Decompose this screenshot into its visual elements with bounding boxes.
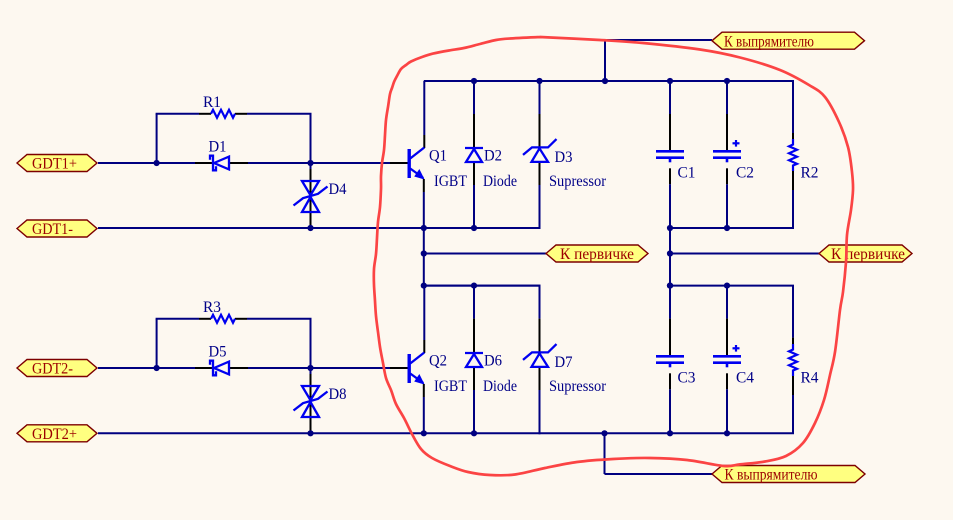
- svg-text:D6: D6: [484, 353, 502, 370]
- node junction C2 top: [724, 78, 730, 84]
- svg-text:К выпрямителю: К выпрямителю: [725, 467, 818, 484]
- node junction C4 bottom: [724, 430, 730, 436]
- transistor Q2: [409, 353, 424, 384]
- wire D8 to lower rail: [310, 374, 312, 433]
- wire D7 branch: [539, 286, 541, 319]
- resistor R3: [211, 315, 235, 323]
- node junction D8 top: [307, 365, 313, 371]
- svg-text:Q2: Q2: [429, 353, 447, 370]
- node junction Q1 emitter: [421, 225, 427, 231]
- red highlight loop (freehand annotation): [374, 37, 853, 475]
- wire R2 branch: [792, 81, 794, 133]
- suppressor D7: [523, 344, 557, 367]
- svg-text:К первичке: К первичке: [560, 246, 634, 263]
- port GDT1+: [17, 155, 97, 172]
- wire D4 to lower rail: [310, 169, 312, 228]
- node junction base row: [154, 365, 160, 371]
- wire cap midpoint rail vertical: [669, 228, 671, 286]
- wire Q1 emitter: [423, 179, 425, 192]
- wire Q2 collector: [423, 286, 425, 340]
- svg-text:R3: R3: [203, 299, 221, 316]
- node junction D6 top: [471, 283, 477, 289]
- node junction bottom riser: [601, 430, 607, 436]
- diode D2: [465, 148, 483, 162]
- suppressor D3: [523, 139, 557, 162]
- wire to left primary port: [424, 253, 546, 255]
- svg-text:D8: D8: [329, 386, 347, 403]
- svg-text:GDT2+: GDT2+: [32, 426, 77, 443]
- wire C1 branch: [669, 81, 671, 114]
- wire D3 branch: [539, 81, 541, 114]
- wire R1 loop left vertical: [156, 114, 158, 163]
- wire R3 loop left vertical: [156, 319, 158, 368]
- svg-text:C1: C1: [678, 164, 696, 181]
- node junction D4 bottom: [307, 225, 313, 231]
- svg-text:D7: D7: [555, 354, 573, 371]
- node junction C2 bottom: [724, 225, 730, 231]
- node junction Q2 collector bus: [421, 283, 427, 289]
- node junction D3 top: [536, 78, 542, 84]
- port GDT2-: [17, 360, 97, 377]
- wire R4 branch: [792, 286, 794, 338]
- svg-text:D3: D3: [555, 149, 573, 166]
- wire bottom rectifier riser: [604, 433, 606, 474]
- node junction base row: [154, 160, 160, 166]
- node junction D2 bottom: [471, 225, 477, 231]
- wire GDT2+ rail / bottom bus: [98, 432, 794, 434]
- node junction D2 top: [471, 78, 477, 84]
- transistor Q1: [409, 148, 424, 179]
- svg-text:R1: R1: [203, 94, 221, 111]
- node junction C3 top: [667, 283, 673, 289]
- node junction D6 bottom: [471, 430, 477, 436]
- resistor R1: [211, 110, 235, 118]
- node junction C1 top: [667, 78, 673, 84]
- wire collector bus: [424, 80, 794, 82]
- node junction C3 bottom: [667, 430, 673, 436]
- node junction rectifier riser top: [602, 78, 608, 84]
- wire top rectifier riser: [604, 40, 606, 81]
- svg-text:Q1: Q1: [429, 148, 447, 165]
- node junction Q2 emitter: [421, 430, 427, 436]
- resistor R4: [789, 344, 797, 376]
- wire R3 loop top: [156, 318, 199, 320]
- svg-text:Supressor: Supressor: [549, 378, 607, 395]
- port K pervichke (right): [819, 245, 912, 262]
- wire Q2 emitter: [423, 384, 425, 397]
- port GDT1-: [17, 220, 97, 237]
- capacitor C4 (polarized): [713, 345, 741, 367]
- wire R1 loop right vertical: [310, 114, 312, 171]
- diode D6: [465, 353, 483, 367]
- node junction switch node / primary: [421, 250, 427, 256]
- wire collector bus: [424, 285, 541, 287]
- wire Q1 collector: [423, 81, 425, 135]
- svg-text:GDT1-: GDT1-: [32, 221, 73, 238]
- port K vypryamitelyu (bottom): [712, 466, 865, 483]
- svg-text:IGBT: IGBT: [434, 378, 467, 395]
- wire base row: [98, 162, 195, 164]
- port K pervichke (left): [546, 245, 648, 262]
- svg-text:GDT1+: GDT1+: [32, 156, 77, 173]
- diode D5: [210, 361, 229, 376]
- svg-text:D5: D5: [209, 343, 227, 360]
- wire D6 branch: [473, 286, 475, 319]
- port GDT2+: [17, 425, 97, 442]
- wire C4 branch: [726, 286, 728, 319]
- suppressor D8: [294, 386, 328, 417]
- svg-text:GDT2-: GDT2-: [32, 361, 73, 378]
- svg-text:Diode: Diode: [483, 378, 517, 395]
- resistor R2: [789, 139, 797, 171]
- capacitor C2 (polarized): [713, 140, 741, 162]
- wire to top rectifier port: [604, 39, 712, 41]
- suppressor D4: [294, 181, 328, 212]
- wire base row: [98, 367, 195, 369]
- svg-text:К первичке: К первичке: [831, 246, 905, 263]
- capacitor C1: [656, 151, 684, 162]
- wire Q2 collector bus: [424, 285, 541, 287]
- wire to right primary port: [670, 253, 819, 255]
- svg-text:D1: D1: [209, 138, 227, 155]
- wire R1 loop top: [156, 113, 199, 115]
- svg-text:C2: C2: [736, 164, 754, 181]
- port K vypryamitelyu (top): [712, 32, 865, 49]
- node junction D8 bottom: [307, 430, 313, 436]
- diode D1: [210, 156, 229, 171]
- wire to bottom rectifier port: [605, 473, 713, 475]
- svg-text:D4: D4: [329, 181, 347, 198]
- svg-text:D2: D2: [484, 148, 502, 165]
- wire D2 branch: [473, 81, 475, 114]
- wire C3 branch: [669, 286, 671, 319]
- wire C2 branch: [726, 81, 728, 114]
- svg-text:Supressor: Supressor: [549, 173, 607, 190]
- svg-text:К выпрямителю: К выпрямителю: [724, 33, 814, 50]
- svg-text:C3: C3: [678, 369, 696, 386]
- node junction cap midpoint / primary: [667, 250, 673, 256]
- svg-text:R4: R4: [801, 369, 819, 386]
- node junction C4 top: [724, 283, 730, 289]
- wire GDT1- rail: [98, 227, 541, 229]
- svg-text:C4: C4: [736, 369, 754, 386]
- svg-text:R2: R2: [801, 164, 819, 181]
- wire R3 loop right vertical: [310, 319, 312, 376]
- wire switch-node vertical: [423, 228, 425, 286]
- svg-text:Diode: Diode: [483, 173, 517, 190]
- wire capacitor mid bus (upper): [670, 227, 794, 229]
- svg-text:IGBT: IGBT: [434, 173, 467, 190]
- node junction lower cap bus left: [667, 283, 673, 289]
- wire lower cap top bus: [670, 285, 794, 287]
- capacitor C3: [656, 356, 684, 367]
- node junction C1 bottom: [667, 225, 673, 231]
- node junction D4 top: [307, 160, 313, 166]
